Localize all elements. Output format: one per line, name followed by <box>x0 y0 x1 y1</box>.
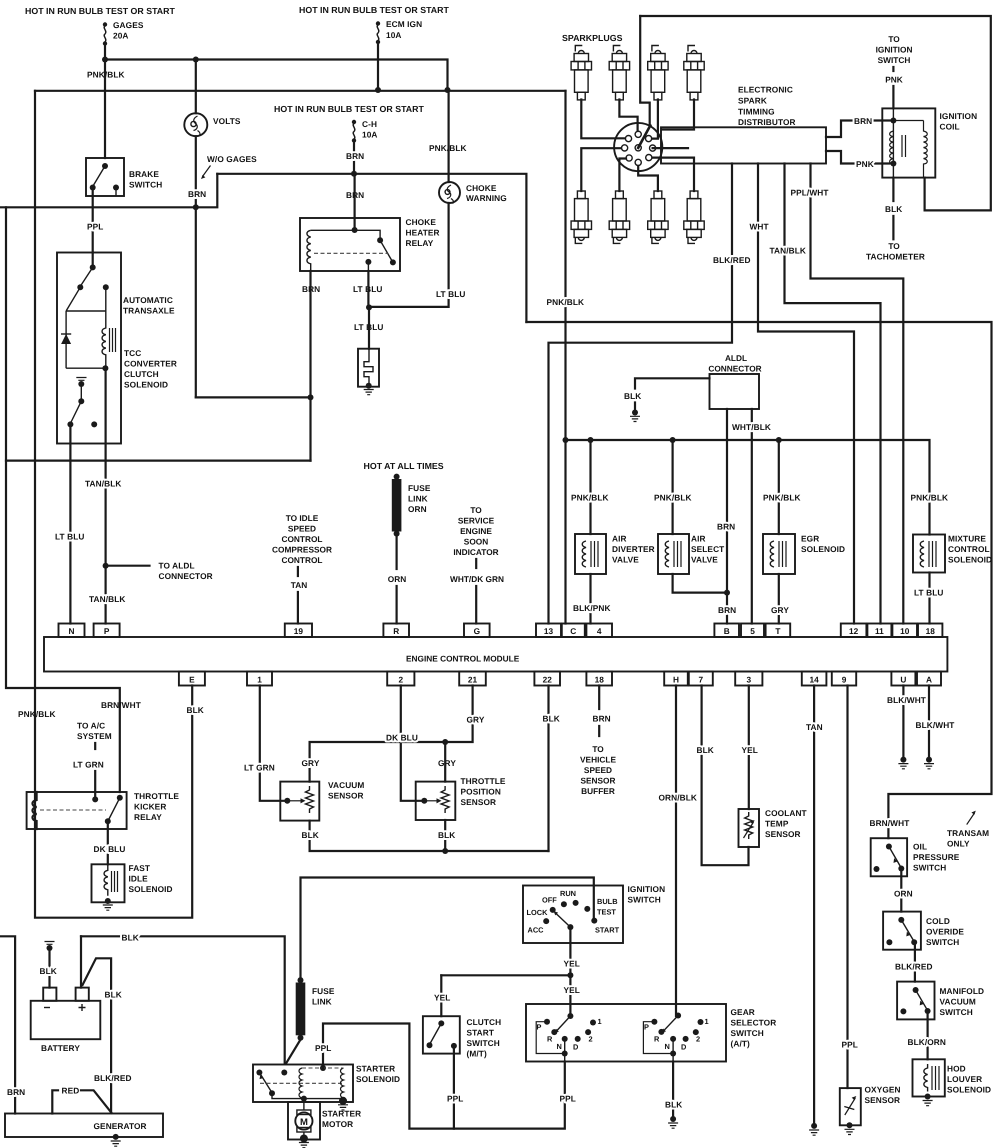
svg-text:DISTRIBUTOR: DISTRIBUTOR <box>738 117 796 127</box>
svg-text:THROTTLE: THROTTLE <box>134 791 179 801</box>
svg-text:WARNING: WARNING <box>466 193 507 203</box>
wire LT BLU mixture to tab 18 <box>928 573 930 624</box>
svg-text:TO: TO <box>888 241 900 251</box>
switch MANIFOLD VACUUM SWITCH <box>897 982 984 1020</box>
svg-text:DK BLU: DK BLU <box>94 844 126 854</box>
wire BLK coil to tachometer <box>892 178 894 240</box>
svg-text:SWITCH: SWITCH <box>913 863 946 873</box>
svg-text:BLK: BLK <box>885 204 902 214</box>
svg-text:RELAY: RELAY <box>134 812 162 822</box>
wire BLK/ORN manifold to HOD louver <box>926 1011 928 1059</box>
wire BLK vacuum sensor to bus <box>310 821 549 851</box>
wire DK BLU tab 2 to TPS <box>401 686 421 801</box>
svg-text:GAGES: GAGES <box>113 20 144 30</box>
svg-text:ORN/BLK: ORN/BLK <box>659 793 698 803</box>
svg-text:1: 1 <box>598 1017 602 1026</box>
node junction gages <box>102 57 108 63</box>
svg-text:PNK/BLK: PNK/BLK <box>547 297 585 307</box>
wire GRY to TPS <box>444 742 446 782</box>
wire TAN/BLK distributor to tab 11 <box>785 164 881 624</box>
node air select junction <box>670 437 676 443</box>
relay CHOKE HEATER RELAY <box>300 217 440 271</box>
svg-text:OFF: OFF <box>542 896 557 905</box>
svg-text:BUFFER: BUFFER <box>581 786 615 796</box>
svg-text:BATTERY: BATTERY <box>41 1043 80 1053</box>
tab 9 <box>832 672 856 686</box>
valve AIR DIVERTER VALVE <box>575 534 655 575</box>
svg-text:SOLENOID: SOLENOID <box>947 1085 991 1095</box>
tab 7 <box>689 672 713 686</box>
wire plug2 bottom to cap <box>619 159 626 192</box>
svg-text:TAN: TAN <box>806 722 823 732</box>
wire PPL tab 9 to oxygen sensor <box>846 686 848 1089</box>
wire TAN to tab 19 <box>297 592 299 624</box>
svg-text:SOLENOID: SOLENOID <box>356 1074 400 1084</box>
svg-text:INDICATOR: INDICATOR <box>453 547 498 557</box>
svg-text:VACUUM: VACUUM <box>940 997 976 1007</box>
svg-text:BLK/RED: BLK/RED <box>713 255 751 265</box>
node corner junction x=447.5 <box>445 87 451 93</box>
svg-text:HOD: HOD <box>947 1064 966 1074</box>
node BRN air select junction <box>724 590 730 596</box>
wire stub dash to A/C <box>94 743 96 749</box>
svg-text:BLK: BLK <box>122 933 139 943</box>
svg-text:PPL: PPL <box>87 222 103 232</box>
svg-text:SPARK: SPARK <box>738 96 767 106</box>
wire YEL ignition switch to gear selector <box>569 927 571 1016</box>
svg-text:CONNECTOR: CONNECTOR <box>159 571 213 581</box>
svg-text:IDLE: IDLE <box>129 874 149 884</box>
svg-text:SENSOR: SENSOR <box>461 797 497 807</box>
svg-text:ACC: ACC <box>528 926 545 935</box>
box ESC distributor loop <box>640 16 991 210</box>
wire plug4 bottom to cap <box>653 158 695 191</box>
svg-text:2: 2 <box>398 675 403 685</box>
tab 1 <box>247 672 272 686</box>
svg-text:N: N <box>557 1042 562 1051</box>
svg-text:SELECT: SELECT <box>691 544 724 554</box>
wire BLK/WHT tab A to ground <box>928 686 930 758</box>
svg-text:AUTOMATIC: AUTOMATIC <box>123 295 173 305</box>
relay THROTTLE KICKER RELAY <box>27 791 180 829</box>
svg-text:ENGINE: ENGINE <box>460 526 492 536</box>
svg-text:SWITCH: SWITCH <box>467 1038 500 1048</box>
ground inside transaxle <box>76 378 86 388</box>
tab 22 <box>534 672 560 686</box>
node bus left end <box>563 437 569 443</box>
coil TCC solenoid <box>66 311 115 372</box>
lamp CHOKE WARNING <box>439 182 507 204</box>
wire BLK battery to generator <box>83 958 112 1113</box>
svg-text:AIR: AIR <box>691 534 706 544</box>
fuselink FUSE LINK (starter) <box>296 977 335 1041</box>
svg-text:BRN: BRN <box>188 189 206 199</box>
wire LT GRN into relay <box>94 771 96 799</box>
ground gear selector <box>668 1116 678 1128</box>
wire plug3 bottom to cap <box>638 166 658 191</box>
tab 21 <box>459 672 486 686</box>
svg-text:CHOKE: CHOKE <box>406 217 437 227</box>
svg-text:HOT AT ALL TIMES: HOT AT ALL TIMES <box>364 461 444 471</box>
fuse GAGES 20A <box>103 20 144 60</box>
wire PNK/BLK to EGR solenoid <box>778 440 780 534</box>
wire PPL clutch switch to bus <box>453 1046 455 1129</box>
switch TCC ground contact <box>67 384 97 427</box>
svg-text:(M/T): (M/T) <box>467 1049 487 1059</box>
svg-text:BRN: BRN <box>593 714 611 724</box>
svg-text:BLK/WHT: BLK/WHT <box>916 720 955 730</box>
svg-text:TAN/BLK: TAN/BLK <box>85 479 122 489</box>
node BRN bus junction <box>193 204 199 210</box>
fuse ECM IGN 10A <box>376 19 422 90</box>
sensor THROTTLE POSITION SENSOR <box>416 776 506 820</box>
svg-text:C-H: C-H <box>362 119 377 129</box>
wire LT BLU from choke warning lamp <box>369 203 449 307</box>
svg-text:5: 5 <box>750 626 755 636</box>
svg-text:ORN: ORN <box>408 504 427 514</box>
svg-text:MOTOR: MOTOR <box>322 1119 353 1129</box>
svg-text:TO: TO <box>592 744 604 754</box>
wire PNK down into coil <box>892 86 894 108</box>
wire bus PNK/BLK y=322 to transam column <box>526 322 991 838</box>
svg-text:COMPRESSOR: COMPRESSOR <box>272 545 332 555</box>
node YEL junction <box>567 972 573 978</box>
wire PNK/BLK down to choke warning lamp <box>448 90 450 182</box>
svg-text:BLK: BLK <box>543 714 560 724</box>
svg-text:VACUUM: VACUUM <box>328 780 364 790</box>
switch COLD OVERIDE SWITCH <box>883 912 964 950</box>
svg-text:TCC: TCC <box>124 348 141 358</box>
svg-text:SOLENOID: SOLENOID <box>129 884 173 894</box>
svg-text:SPARKPLUGS: SPARKPLUGS <box>562 33 623 43</box>
wire PPL/WHT distributor to tab 10 <box>811 164 904 624</box>
wire stub TO ALDL CONNECTOR <box>106 565 150 567</box>
svg-text:PPL: PPL <box>315 1043 331 1053</box>
wire PNK/BLK to air select valve <box>671 440 673 534</box>
svg-text:BRN: BRN <box>717 522 735 532</box>
svg-text:SENSOR: SENSOR <box>865 1095 901 1105</box>
svg-text:2: 2 <box>589 1035 593 1044</box>
wire WHT/DK GRN to tab G <box>475 586 477 624</box>
wire PPL brake switch to transaxle <box>92 189 94 253</box>
diode TCC <box>61 287 106 368</box>
svg-text:P: P <box>104 626 110 636</box>
tab E <box>179 672 205 686</box>
svg-text:IGNITION: IGNITION <box>940 111 978 121</box>
wire DK BLU relay to fast idle solenoid <box>107 821 109 864</box>
wire LT BLU relay to junction <box>367 271 369 308</box>
svg-text:STARTER: STARTER <box>322 1109 361 1119</box>
svg-text:DIVERTER: DIVERTER <box>612 544 655 554</box>
wire BLK tab 7 to coolant sensor <box>702 686 749 866</box>
svg-text:ALDL: ALDL <box>725 353 747 363</box>
svg-text:P: P <box>644 1023 649 1032</box>
svg-text:BLK: BLK <box>40 966 57 976</box>
svg-text:GRY: GRY <box>438 758 456 768</box>
svg-text:B: B <box>724 626 730 636</box>
svg-text:SWITCH: SWITCH <box>628 895 661 905</box>
svg-text:SWITCH: SWITCH <box>926 937 959 947</box>
wire YEL tab 3 to coolant sensor <box>748 686 750 810</box>
svg-text:PNK/BLK: PNK/BLK <box>911 493 949 503</box>
svg-text:21: 21 <box>468 675 478 685</box>
wire GRY tab 21 to sensors <box>310 686 473 782</box>
svg-text:PNK: PNK <box>856 159 874 169</box>
svg-text:GRY: GRY <box>467 715 485 725</box>
svg-text:HOT IN RUN BULB TEST OR START: HOT IN RUN BULB TEST OR START <box>25 6 175 16</box>
svg-text:PPL: PPL <box>447 1094 463 1104</box>
tab 18 (bottom) <box>586 672 612 686</box>
svg-text:TO IDLE: TO IDLE <box>286 513 319 523</box>
svg-text:LT GRN: LT GRN <box>73 760 104 770</box>
svg-text:W/O GAGES: W/O GAGES <box>207 154 257 164</box>
tab C <box>562 624 585 638</box>
label TO VEHICLE SPEED SENSOR BUFFER <box>580 744 616 796</box>
svg-text:RED: RED <box>62 1086 80 1096</box>
svg-text:CONNECTOR: CONNECTOR <box>708 364 761 374</box>
svg-text:LOUVER: LOUVER <box>947 1074 982 1084</box>
wire BLK battery bus <box>81 936 285 1063</box>
sparkplug bottom 2 <box>609 191 629 243</box>
svg-text:BLK/PNK: BLK/PNK <box>573 603 611 613</box>
wire BRN distributor to coil <box>826 121 893 138</box>
svg-text:19: 19 <box>294 626 304 636</box>
wire RED generator bracket <box>52 1090 111 1113</box>
tab 11 <box>867 624 891 638</box>
svg-text:RUN: RUN <box>560 889 576 898</box>
svg-text:CONTROL: CONTROL <box>281 534 322 544</box>
svg-text:TEMP: TEMP <box>765 819 789 829</box>
wire stub idle speed dash <box>297 567 299 576</box>
svg-text:FUSE: FUSE <box>312 986 335 996</box>
svg-text:D: D <box>681 1043 687 1052</box>
svg-text:SENSOR: SENSOR <box>580 776 615 786</box>
tab 3 <box>735 672 762 686</box>
solenoid FAST IDLE SOLENOID <box>92 863 173 910</box>
svg-text:WHT: WHT <box>750 222 769 232</box>
wire ORN fuse link to tab R <box>396 536 398 569</box>
wire plug2 top to cap <box>619 100 637 132</box>
svg-text:BLK: BLK <box>697 745 714 755</box>
tab U <box>891 672 915 686</box>
svg-text:PPL/WHT: PPL/WHT <box>791 188 829 198</box>
coil IGNITION COIL <box>882 108 977 177</box>
ground tab A <box>924 757 934 769</box>
wire plug1 bottom to cap <box>581 148 621 191</box>
svg-text:CONTROL: CONTROL <box>281 555 322 565</box>
sparkplug top 4 <box>684 46 704 100</box>
svg-text:IGNITION: IGNITION <box>876 45 913 55</box>
svg-text:E: E <box>189 675 195 685</box>
sparkplug top 2 <box>609 46 629 100</box>
switch GEAR SELECTOR SWITCH (A/T) <box>526 1004 726 1062</box>
wire BLK/RED distributor to tab 13 <box>549 164 733 624</box>
wire GRY EGR to tab T <box>778 574 780 624</box>
tab N <box>59 624 85 638</box>
svg-text:SYSTEM: SYSTEM <box>77 731 112 741</box>
svg-text:BLK: BLK <box>105 990 122 1000</box>
svg-text:CLUTCH: CLUTCH <box>467 1017 502 1027</box>
svg-text:VALVE: VALVE <box>612 555 639 565</box>
svg-text:BRN: BRN <box>854 116 872 126</box>
node air diverter junction <box>588 437 594 443</box>
svg-text:LT BLU: LT BLU <box>55 532 84 542</box>
svg-text:RELAY: RELAY <box>406 238 434 248</box>
svg-text:U: U <box>900 675 906 685</box>
sensor COOLANT TEMP SENSOR <box>739 808 807 847</box>
svg-text:LINK: LINK <box>408 494 428 504</box>
svg-text:R: R <box>654 1035 660 1044</box>
svg-text:PPL: PPL <box>842 1040 858 1050</box>
svg-text:G: G <box>474 626 480 636</box>
svg-text:FUSE: FUSE <box>408 483 431 493</box>
svg-text:BLK: BLK <box>438 830 455 840</box>
fuselink FUSE LINK ORN <box>392 474 431 537</box>
svg-text:BLK/RED: BLK/RED <box>895 962 933 972</box>
wire plug3 top to cap <box>652 100 658 139</box>
wire BRN relay bottom to junction dot <box>309 271 311 461</box>
svg-text:SENSOR: SENSOR <box>328 791 364 801</box>
svg-text:PNK: PNK <box>885 75 903 85</box>
tab 5 <box>741 624 764 638</box>
svg-text:BRN: BRN <box>346 151 364 161</box>
svg-text:ECM IGN: ECM IGN <box>386 19 422 29</box>
svg-text:11: 11 <box>875 626 884 636</box>
svg-text:BRAKE: BRAKE <box>129 169 159 179</box>
tab 12 <box>841 624 867 638</box>
tab 13 <box>536 624 561 638</box>
svg-text:12: 12 <box>849 626 859 636</box>
svg-text:VOLTS: VOLTS <box>213 116 241 126</box>
node BRN junction <box>308 394 314 400</box>
svg-text:BLK: BLK <box>624 391 641 401</box>
svg-text:YEL: YEL <box>434 993 450 1003</box>
svg-text:GRY: GRY <box>302 758 320 768</box>
wire air select valve to BRN junction <box>673 574 727 593</box>
svg-text:POSITION: POSITION <box>461 787 501 797</box>
valve AIR SELECT VALVE <box>658 534 724 575</box>
label W/O GAGES with arrow <box>201 154 257 179</box>
svg-text:STARTER: STARTER <box>356 1064 395 1074</box>
switch OIL PRESSURE SWITCH <box>871 838 960 876</box>
svg-text:COOLANT: COOLANT <box>765 808 807 818</box>
svg-text:CLUTCH: CLUTCH <box>124 369 159 379</box>
svg-text:CONVERTER: CONVERTER <box>124 359 177 369</box>
svg-text:H: H <box>673 675 679 685</box>
svg-text:TO: TO <box>470 505 482 515</box>
node BLK TPS junction <box>442 848 448 854</box>
svg-text:BRN: BRN <box>718 605 736 615</box>
svg-text:ELECTRONIC: ELECTRONIC <box>738 85 793 95</box>
svg-text:BLK/ORN: BLK/ORN <box>908 1037 947 1047</box>
svg-text:M: M <box>300 1117 308 1128</box>
gear selector right group <box>643 1013 708 1062</box>
svg-text:TEST: TEST <box>597 908 616 917</box>
wire plug4 top to cap <box>662 100 695 130</box>
label TRANSAM ONLY with arrow <box>947 811 989 849</box>
wire LT BLU transaxle to tab N <box>69 424 71 623</box>
wire bus y=59.5 from GAGES to ECM-IGN drop <box>105 60 448 90</box>
svg-text:SWITCH: SWITCH <box>731 1028 764 1038</box>
svg-text:10A: 10A <box>362 130 378 140</box>
svg-text:3: 3 <box>746 675 751 685</box>
svg-text:LT BLU: LT BLU <box>436 289 465 299</box>
svg-text:ENGINE CONTROL MODULE: ENGINE CONTROL MODULE <box>406 654 520 664</box>
wire BLK to fuse link and ignition switch <box>301 878 594 981</box>
svg-text:COLD: COLD <box>926 916 950 926</box>
wire bus y=207.3 from left edge <box>0 174 217 208</box>
resistor choke heater element with ground <box>358 349 379 395</box>
svg-text:LINK: LINK <box>312 997 332 1007</box>
svg-text:2: 2 <box>696 1035 700 1044</box>
node EGR junction <box>776 437 782 443</box>
svg-text:BLK/RED: BLK/RED <box>94 1073 132 1083</box>
wire battery positive to bus <box>80 936 82 987</box>
svg-text:PNK/BLK: PNK/BLK <box>763 493 801 503</box>
svg-text:START: START <box>467 1028 495 1038</box>
sparkplug bottom 3 <box>648 191 668 243</box>
solenoid HOD LOUVER SOLENOID <box>913 1059 992 1105</box>
svg-text:GEAR: GEAR <box>731 1007 755 1017</box>
svg-text:N: N <box>665 1042 670 1051</box>
node GRY TPS junction <box>442 739 448 745</box>
motor STARTER MOTOR <box>288 1102 361 1148</box>
ECM ENGINE CONTROL MODULE box <box>44 637 947 672</box>
wire ORN/BLK tab H to gear selector <box>675 686 677 1017</box>
svg-text:WHT/DK GRN: WHT/DK GRN <box>450 574 504 584</box>
tab G <box>464 624 490 638</box>
svg-text:D: D <box>573 1043 579 1052</box>
fuse C-H 10A <box>352 119 378 174</box>
svg-text:BRN/WHT: BRN/WHT <box>101 700 141 710</box>
svg-text:HEATER: HEATER <box>406 228 440 238</box>
generator GENERATOR <box>5 1114 163 1147</box>
svg-text:YEL: YEL <box>564 959 580 969</box>
svg-text:AIR: AIR <box>612 534 627 544</box>
svg-text:C: C <box>570 626 576 636</box>
svg-text:GRY: GRY <box>771 605 789 615</box>
wire PPL starter solenoid S terminal <box>323 1024 565 1129</box>
wire BLK ALDL ground stub <box>635 378 710 410</box>
wire PNK/BLK tab C drop <box>564 91 566 624</box>
svg-text:BRN/WHT: BRN/WHT <box>870 818 910 828</box>
wire BRN from left edge to generator <box>0 936 15 1113</box>
ground ALDL <box>630 410 640 422</box>
wire LT GRN tab 1 to vacuum sensor <box>260 686 284 801</box>
svg-text:R: R <box>547 1035 553 1044</box>
svg-text:22: 22 <box>543 675 553 685</box>
svg-text:SENSOR: SENSOR <box>765 829 801 839</box>
wire BRN return loop left <box>6 207 311 460</box>
svg-text:LT BLU: LT BLU <box>914 588 943 598</box>
wire PNK/BLK left tall vertical to E-loop <box>35 91 192 918</box>
svg-text:TO A/C: TO A/C <box>77 721 105 731</box>
svg-text:SWITCH: SWITCH <box>129 180 162 190</box>
rotor line <box>638 126 650 148</box>
wire BRN from volts down <box>195 136 197 397</box>
tab 4 <box>586 624 612 638</box>
sparkplug bottom 4 <box>684 191 704 243</box>
battery BATTERY <box>31 988 101 1053</box>
svg-text:7: 7 <box>698 675 703 685</box>
wire cap right pin to distributor body <box>653 147 688 149</box>
wire BLK/RED cold override to manifold vacuum <box>914 942 916 981</box>
wire ORN oil pressure to cold override <box>900 869 902 912</box>
svg-text:SWITCH: SWITCH <box>878 55 911 65</box>
solenoid MIXTURE CONTROL SOLENOID <box>913 534 992 573</box>
wire bus PNK/BLK y=440 valves feed <box>566 440 930 535</box>
wire BLK/PNK air diverter to tab 4 <box>589 574 591 624</box>
